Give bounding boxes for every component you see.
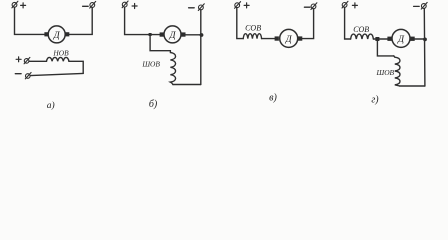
wire coil bottom to right vertical (400, 85, 425, 87)
svg-text:СОВ: СОВ (245, 24, 261, 33)
wire left vertical to bus (125, 7, 160, 34)
wire to NOV coil (29, 60, 46, 62)
terminal +T1g (342, 1, 348, 8)
armature brush blob left (44, 32, 48, 36)
series winding SOV coil (v) (243, 34, 261, 39)
minus sign (414, 5, 420, 7)
wire armature to right vertical (415, 38, 425, 40)
minus sign (83, 5, 89, 7)
armature brush blob right (410, 37, 414, 41)
svg-text:Д: Д (285, 35, 293, 45)
wire left vertical (345, 8, 351, 40)
junction blob g (375, 37, 379, 41)
field winding NOV coil (47, 57, 69, 61)
svg-text:в): в) (269, 93, 277, 104)
series winding SOV coil (g) (351, 34, 374, 39)
terminal -T4a (25, 73, 31, 79)
armature brush blob right (298, 36, 302, 40)
armature brush blob left (160, 32, 164, 36)
shunt branch wire down and right (150, 35, 170, 51)
wire left vertical (237, 8, 243, 39)
minus sign (304, 6, 310, 8)
terminal -T2g (421, 2, 427, 9)
wire bottom return (30, 73, 83, 75)
terminal -T2b (198, 4, 204, 11)
armature brush blob left (387, 37, 391, 41)
wire right vertical (200, 10, 202, 85)
wire coil to junction (373, 38, 388, 40)
wire coil to armature (262, 38, 276, 40)
wire armature to right vertical (302, 9, 313, 39)
minus sign (189, 7, 195, 9)
field winding ShOV coil (b) (170, 51, 175, 85)
armature brush blob left (275, 36, 279, 40)
svg-text:Д: Д (53, 31, 61, 41)
svg-text:а): а) (47, 100, 55, 111)
wire left vertical (15, 7, 45, 34)
junction left shunt (149, 33, 152, 36)
wire right vertical (69, 8, 92, 35)
plus sign lower (16, 57, 21, 62)
motor armature D (v) (280, 29, 298, 47)
svg-text:Д: Д (397, 35, 405, 45)
motor armature D (a) (48, 26, 65, 43)
wire coil bottom to right vertical (173, 84, 201, 86)
plus sign (244, 3, 249, 8)
terminal +T1a (12, 1, 18, 8)
wire armature to right vertical (186, 34, 201, 36)
svg-text:Д: Д (168, 31, 176, 41)
wire coil to right side (69, 61, 83, 73)
svg-text:СОВ: СОВ (353, 25, 369, 34)
armature brush blob right (181, 32, 185, 36)
svg-text:б): б) (149, 99, 158, 110)
svg-text:ШОВ: ШОВ (376, 68, 395, 77)
junction dot right g (423, 38, 427, 42)
shunt branch wire down and right (g) (377, 41, 393, 56)
svg-text:г): г) (371, 95, 379, 106)
motor armature D (b) (164, 26, 181, 43)
terminal +T3a (24, 57, 30, 63)
minus sign lower (15, 73, 21, 75)
terminal -T2a (90, 1, 96, 8)
plus sign (21, 3, 26, 8)
junction dot right (200, 33, 204, 37)
svg-text:НОВ: НОВ (52, 49, 69, 58)
plus sign (352, 3, 357, 8)
terminal +T1v (235, 2, 241, 9)
motor armature D (g) (392, 29, 410, 47)
terminal +T1b (122, 1, 128, 8)
terminal -T2v (311, 3, 317, 10)
field winding ShOV coil (g) (394, 56, 400, 86)
svg-text:ШОВ: ШОВ (141, 60, 160, 69)
armature brush blob right (65, 32, 69, 36)
plus sign (132, 4, 137, 9)
wire right vertical (423, 8, 426, 86)
